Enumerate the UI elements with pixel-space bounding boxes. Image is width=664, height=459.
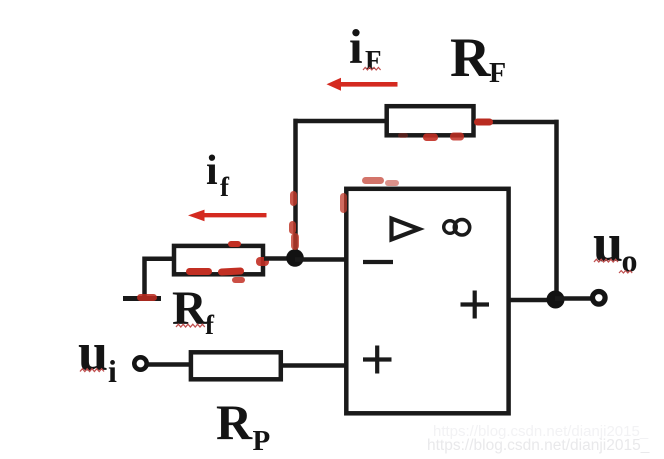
squiggle under i_F subscript [363,67,381,70]
arrow i_F (red, pointing left) [327,78,398,91]
wire: u_i to R_P [146,362,190,367]
svg-text:R: R [450,27,491,89]
svg-text:f: f [205,310,215,340]
svg-text:i: i [349,19,363,74]
wire: feedback top-right horizontal segment [476,120,559,125]
red mark: dashes under R_F box [398,133,464,142]
label R_F [450,27,506,89]
op-amp minus label (inverting input) [363,260,393,264]
watermark [427,423,650,454]
wire: right vertical from R_F down to output node [554,120,559,299]
wire: R_f to inverting node [264,256,296,261]
op-amp U1 body [346,189,508,413]
svg-text:i: i [108,353,117,389]
squiggle under u_i [80,369,104,372]
label u_i [78,322,117,389]
ground [123,296,161,301]
op-amp infinity-gain symbol [444,220,470,235]
red mark: smudges at op-amp top-left corner [340,177,399,213]
svg-text:R: R [216,394,253,450]
wire: R_P to op-amp non-inverting input [283,363,348,368]
red mark: dashes inside bottom of R_f [186,241,269,283]
wire: feedback top-left horizontal segment [294,119,387,124]
resistor R_f [174,246,263,274]
svg-text:f: f [220,172,230,202]
svg-text:F: F [489,58,506,89]
resistor R_P [191,352,281,379]
red mark: dab left of junction vertical [289,191,299,250]
svg-text:i: i [206,148,218,194]
wire: op-amp output to node [509,298,556,303]
svg-text:u: u [78,322,108,382]
wire: output node to terminal [555,296,593,301]
arrow i_f (red, pointing left) [188,210,267,222]
label R_P [216,394,270,457]
label i_f [206,148,230,202]
svg-text:https://blog.csdn.net/dianji20: https://blog.csdn.net/dianji2015_ [427,437,650,454]
op-amp output plus label [461,291,490,319]
svg-text:P: P [253,425,271,457]
label i_F [349,19,382,75]
wire: left vertical from top wire down to inverting node [293,119,298,258]
terminal u_o (open circle) [593,292,606,305]
svg-text:u: u [593,213,623,273]
squiggle under u_o [594,259,632,273]
red mark: dab at R_F right wire exit [474,119,493,126]
red mark: dab on ground junction [137,294,157,301]
label R_f [172,282,215,340]
op-amp plus label (non-inverting input) [363,346,392,374]
wire: junction to op-amp inverting input [295,257,348,262]
node: output junction [547,291,565,309]
terminal u_i (open circle) [134,357,146,369]
label u_o [593,213,638,279]
resistor R_F [387,106,474,135]
wire: ground-side lead of R_f [145,259,174,297]
op-amp triangle symbol [392,219,420,240]
squiggle under R_f [176,324,205,327]
node: inverting input junction [286,249,304,267]
